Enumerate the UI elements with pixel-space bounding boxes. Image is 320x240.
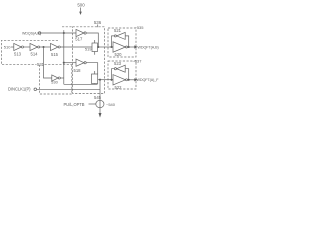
latch 535: inverter 521 (feedback, points left) (114, 28, 122, 33)
wire WDQS to inverter 517 (41, 32, 76, 34)
wire 530 output (60, 77, 63, 79)
wire 536 leader tick (97, 25, 99, 28)
svg-text:WDQFT(A)_F: WDQFT(A)_F (137, 78, 160, 82)
wire 515 to pass gate 519 (60, 46, 92, 48)
inverter 517 (76, 29, 84, 36)
svg-text:510: 510 (4, 45, 11, 50)
wire output drop to pull circuit (99, 80, 101, 114)
svg-text:514: 514 (31, 52, 39, 57)
inverter 514 (30, 43, 38, 50)
wire input to inverter 513 (11, 46, 14, 48)
wire 519 to latch (98, 46, 114, 48)
wire latch 537 output (128, 79, 135, 81)
node junction (99, 79, 101, 81)
node WDQS(A,B) input label (22, 32, 41, 36)
node junction (97, 46, 99, 48)
svg-text:518: 518 (74, 68, 82, 73)
wire 518 output (86, 63, 98, 74)
wire WDQS tap vertical (63, 33, 65, 84)
node PU/L,OPTB label (64, 102, 85, 107)
svg-text:~535: ~535 (135, 25, 145, 30)
wire DINCLK to pass gate control (37, 88, 100, 90)
svg-text:519: 519 (85, 47, 92, 52)
svg-text:DINCLK1(P): DINCLK1(P) (8, 87, 31, 92)
inverter 513 (14, 43, 22, 50)
wire latch 535 feedback (112, 36, 129, 47)
node WDQFT(A)_F output label (137, 78, 160, 82)
transistor 540 circle (96, 100, 104, 107)
node 500 figure label (77, 3, 85, 8)
dashed block 537 (bottom latch) (108, 61, 136, 89)
pass gate 529 (92, 74, 98, 84)
wire tap to inverter 530 (44, 47, 52, 78)
dashed block 536 top edge extension (62, 26, 73, 28)
inverter 530 (52, 75, 58, 81)
svg-text:545: 545 (94, 95, 102, 100)
wire 500 pointer arrow (80, 8, 82, 13)
wire stub above WDQS junction (63, 30, 65, 33)
wire 514 to 515 (40, 46, 51, 48)
node ~540 label (106, 102, 116, 107)
svg-text:515: 515 (51, 52, 59, 57)
dashed block 531 (bottom left) (40, 65, 72, 94)
svg-text:520: 520 (115, 52, 123, 57)
wire latch 535 output (128, 46, 135, 48)
node 536 block label (94, 20, 102, 25)
terminal circle WDQS (38, 32, 41, 35)
wire PU/L,OPTB to 540 (89, 103, 96, 105)
wire 529 to bottom latch (98, 79, 113, 81)
node 511 box label (37, 62, 45, 67)
svg-text:530: 530 (51, 79, 58, 84)
svg-text:513: 513 (14, 52, 22, 57)
svg-text:PU/L,OPTB: PU/L,OPTB (64, 102, 85, 107)
inverter 518 (76, 59, 84, 66)
svg-text:521: 521 (114, 28, 122, 33)
node 545 label (94, 95, 102, 100)
wire output down arrow (99, 113, 102, 118)
wire 517 output (86, 33, 98, 47)
node DINCLK1(P) input label (8, 87, 31, 92)
svg-text:~537: ~537 (133, 59, 143, 64)
pass gate 519 (92, 43, 98, 52)
svg-text:522: 522 (115, 85, 123, 90)
dashed block 536 (middle) (73, 27, 105, 94)
dashed block 511 (left input chain) (2, 40, 73, 64)
node junction WDQS tap (63, 32, 65, 34)
wire 513 to 514 (24, 46, 30, 48)
node 537 label (133, 59, 143, 64)
svg-text:WDQFT(A,B): WDQFT(A,B) (138, 45, 159, 49)
node 535 label (135, 25, 145, 30)
svg-text:WDQS(A,B): WDQS(A,B) (22, 32, 41, 36)
wire 518 input stub (64, 62, 76, 64)
svg-text:500: 500 (77, 3, 85, 8)
node junction tap (42, 46, 44, 48)
svg-text:523: 523 (114, 61, 122, 66)
inverter 522 (113, 75, 126, 85)
node WDQFT(A,B) output label (138, 45, 159, 49)
latch 537: inverter 523 (feedback, points left) (114, 61, 122, 66)
svg-text:~540: ~540 (106, 102, 116, 107)
dashed block 535 (top latch) (108, 28, 136, 57)
svg-text:517: 517 (75, 36, 83, 41)
inverter 515 (51, 43, 59, 50)
wire latch 537 feedback (112, 69, 129, 80)
node 510 input label (4, 45, 11, 50)
svg-text:536: 536 (94, 20, 102, 25)
wire 530 output bus (64, 83, 98, 85)
inverter 520 (113, 42, 126, 52)
terminal circle DINCLK (34, 88, 37, 91)
